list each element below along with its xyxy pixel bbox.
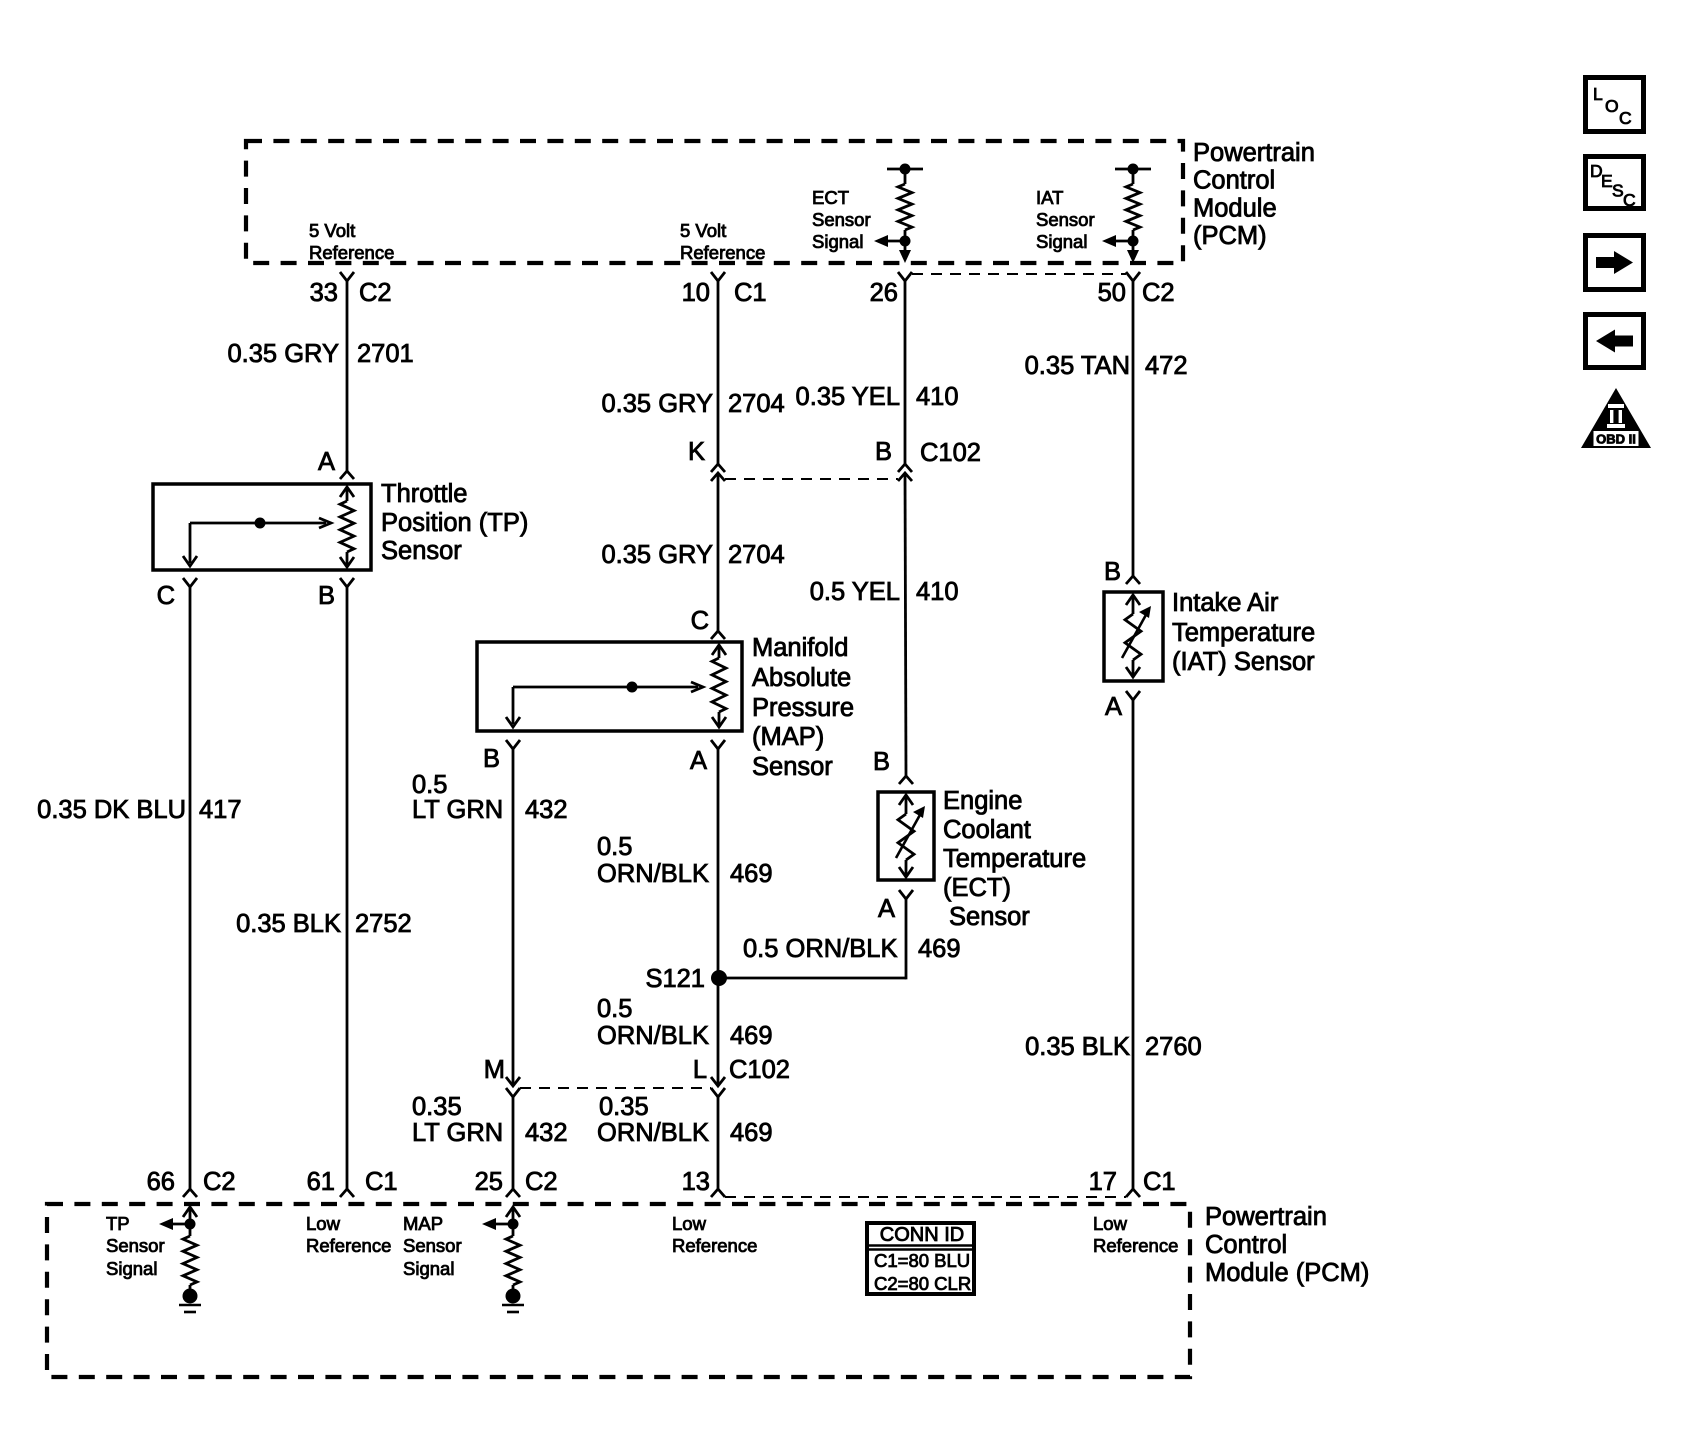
icon: back arrow box bbox=[1586, 315, 1644, 368]
wire: 0.5 ORN/BLK 469 (MAP A to S121 to L C102) bbox=[717, 749, 720, 1085]
svg-text:Sensor: Sensor bbox=[381, 537, 462, 565]
svg-text:Signal: Signal bbox=[1036, 231, 1087, 252]
svg-text:B: B bbox=[483, 745, 500, 773]
wire: 0.5 YEL 410 (B to ECT B) bbox=[905, 473, 906, 776]
svg-text:Sensor: Sensor bbox=[1036, 209, 1095, 230]
wire: 0.35 TAN 472 (pin 50 to IAT B) bbox=[1132, 281, 1135, 576]
svg-text:Pressure: Pressure bbox=[752, 694, 854, 722]
svg-text:410: 410 bbox=[916, 578, 959, 606]
label: Intake Air Temperature (IAT) Sensor bbox=[1172, 589, 1315, 676]
svg-text:S121: S121 bbox=[645, 965, 705, 993]
svg-text:Sensor: Sensor bbox=[106, 1235, 165, 1256]
dashed connector face line M-L C102 bbox=[520, 1087, 711, 1089]
svg-text:13: 13 bbox=[682, 1168, 710, 1196]
svg-text:C2: C2 bbox=[203, 1168, 236, 1196]
svg-text:66: 66 bbox=[147, 1168, 175, 1196]
svg-text:Signal: Signal bbox=[812, 231, 863, 252]
resistor: ECT pull-up inside PCM bbox=[887, 164, 923, 253]
svg-text:S: S bbox=[1612, 181, 1624, 201]
connector pin 17 C1 bbox=[1089, 1168, 1176, 1197]
connector pin 50 C2 bbox=[1098, 272, 1175, 307]
label: 0.5 ORN/BLK 469 upper bbox=[597, 833, 773, 888]
svg-text:C: C bbox=[691, 607, 709, 635]
svg-text:ECT: ECT bbox=[812, 187, 849, 208]
svg-text:C: C bbox=[157, 582, 175, 610]
label: 5 Volt Reference (pin 10) bbox=[680, 220, 765, 263]
wire: 0.35 LT GRN 432 (M to pin 25) bbox=[512, 1097, 515, 1189]
wire: 0.35 BLK 2752 (TP B to pin 61) bbox=[346, 587, 349, 1189]
svg-text:Temperature: Temperature bbox=[943, 845, 1086, 873]
svg-text:0.35 BLK: 0.35 BLK bbox=[236, 910, 341, 938]
svg-text:C1=80 BLU: C1=80 BLU bbox=[874, 1250, 970, 1271]
potentiometer inside TP sensor bbox=[340, 487, 354, 567]
MAP pin A bbox=[690, 740, 725, 775]
svg-text:(ECT): (ECT) bbox=[943, 874, 1011, 902]
wire: 0.5 LT GRN 432 (MAP B to M C102) bbox=[512, 749, 515, 1085]
icon: OBD II triangle bbox=[1581, 388, 1651, 448]
svg-text:Sensor: Sensor bbox=[403, 1235, 462, 1256]
PCM top module box (dashed) bbox=[246, 141, 1183, 263]
CONN ID table bbox=[866, 1223, 975, 1294]
ground: MAP signal pull-down bbox=[502, 1289, 524, 1313]
svg-text:Reference: Reference bbox=[680, 242, 765, 263]
svg-text:L: L bbox=[693, 1056, 707, 1084]
svg-text:A: A bbox=[1105, 693, 1122, 721]
svg-text:C102: C102 bbox=[920, 439, 981, 467]
label: Low Reference (pin 13) bbox=[672, 1213, 757, 1256]
dashed connector face line pins 26-50 bbox=[912, 273, 1126, 275]
TP sensor box bbox=[153, 484, 371, 570]
svg-text:0.35: 0.35 bbox=[412, 1093, 462, 1121]
svg-text:0.35: 0.35 bbox=[599, 1093, 649, 1121]
connector pin 33 C2 bbox=[310, 272, 392, 307]
ECT pin B bbox=[873, 748, 913, 784]
label: Powertrain Control Module (PCM) bottom right bbox=[1205, 1203, 1369, 1287]
svg-text:IAT: IAT bbox=[1036, 187, 1063, 208]
thermistor inside ECT sensor bbox=[896, 795, 925, 877]
svg-text:E: E bbox=[1601, 171, 1613, 191]
svg-text:K: K bbox=[688, 438, 705, 466]
wire: 0.35 YEL 410 (pin 26 to B C102) bbox=[904, 281, 907, 464]
svg-text:Module (PCM): Module (PCM) bbox=[1205, 1259, 1369, 1287]
svg-text:B: B bbox=[875, 438, 892, 466]
label: 0.35 BLK 2752 bbox=[236, 910, 412, 938]
MAP pin B bbox=[483, 740, 520, 773]
label: 0.35 GRY 2701 bbox=[227, 340, 413, 368]
svg-text:B: B bbox=[1104, 558, 1121, 586]
connector pin 25 C2 bbox=[475, 1168, 558, 1197]
ECT sensor box bbox=[878, 792, 934, 880]
label: 0.5 YEL 410 bbox=[810, 578, 959, 606]
svg-text:Position (TP): Position (TP) bbox=[381, 509, 528, 537]
svg-text:A: A bbox=[690, 747, 707, 775]
potentiometer inside MAP sensor bbox=[712, 645, 726, 727]
svg-text:Low: Low bbox=[306, 1213, 341, 1234]
label: 0.35 TAN 472 bbox=[1025, 352, 1188, 380]
svg-text:Absolute: Absolute bbox=[752, 664, 851, 692]
connector pin 26 bbox=[870, 272, 912, 307]
resistor: IAT pull-up inside PCM bbox=[1115, 164, 1151, 253]
svg-text:50: 50 bbox=[1098, 279, 1126, 307]
svg-text:2704: 2704 bbox=[728, 541, 785, 569]
IAT pin A bbox=[1105, 691, 1140, 721]
junction + ECT sensor signal arrow (left) bbox=[874, 235, 911, 247]
TP pin B bbox=[318, 578, 354, 610]
TP wiper arrow bbox=[183, 518, 331, 567]
label: 0.35 GRY 2704 lower bbox=[601, 541, 784, 569]
label: 0.35 YEL 410 bbox=[796, 383, 959, 411]
svg-text:Coolant: Coolant bbox=[943, 816, 1031, 844]
label: TP Sensor Signal bbox=[106, 1213, 165, 1279]
svg-text:469: 469 bbox=[730, 860, 773, 888]
TP pin C bbox=[157, 578, 197, 610]
svg-text:10: 10 bbox=[682, 279, 710, 307]
wire: 0.35 GRY 2701 (pin 33 to TP A) bbox=[346, 281, 349, 471]
svg-text:0.35 DK BLU: 0.35 DK BLU bbox=[37, 796, 186, 824]
label: IAT Sensor Signal bbox=[1036, 187, 1095, 252]
thermistor inside IAT sensor bbox=[1122, 595, 1151, 677]
svg-text:C2: C2 bbox=[1142, 279, 1175, 307]
connector pin 10 C1 bbox=[682, 272, 767, 307]
label: MAP Sensor Signal bbox=[403, 1213, 462, 1279]
svg-text:410: 410 bbox=[916, 383, 959, 411]
svg-text:469: 469 bbox=[730, 1022, 773, 1050]
svg-text:Sensor: Sensor bbox=[812, 209, 871, 230]
wire: S121 to ECT A (horizontal) bbox=[719, 977, 906, 980]
TP pin A bbox=[318, 448, 354, 479]
junction + IAT sensor signal arrow (left) bbox=[1102, 235, 1139, 247]
svg-text:O: O bbox=[1605, 96, 1619, 116]
label: 0.35 BLK 2760 bbox=[1025, 1033, 1202, 1061]
svg-text:5 Volt: 5 Volt bbox=[309, 220, 355, 241]
svg-text:17: 17 bbox=[1089, 1168, 1117, 1196]
svg-text:Sensor: Sensor bbox=[752, 753, 833, 781]
IAT sensor box bbox=[1104, 592, 1163, 681]
svg-text:C1: C1 bbox=[365, 1168, 398, 1196]
svg-text:ORN/BLK: ORN/BLK bbox=[597, 1119, 709, 1147]
in-line connector K C102 bbox=[688, 438, 725, 481]
in-line connector L C102 bbox=[693, 1056, 790, 1097]
label: 0.5 ORN/BLK 469 lower bbox=[597, 995, 773, 1050]
svg-text:432: 432 bbox=[525, 796, 568, 824]
dashed connector face line pins 13-17 bbox=[725, 1196, 1126, 1198]
svg-text:Temperature: Temperature bbox=[1172, 619, 1315, 647]
svg-text:M: M bbox=[484, 1056, 505, 1084]
label: 0.5 ORN/BLK 469 (S121 branch) bbox=[743, 935, 961, 963]
svg-text:25: 25 bbox=[475, 1168, 503, 1196]
svg-text:0.5: 0.5 bbox=[597, 833, 632, 861]
svg-text:B: B bbox=[318, 582, 335, 610]
icon: DESC box bbox=[1586, 157, 1644, 211]
svg-text:Signal: Signal bbox=[106, 1258, 157, 1279]
label: Low Reference (pin 61) bbox=[306, 1213, 391, 1256]
svg-text:0.5: 0.5 bbox=[597, 995, 632, 1023]
svg-text:Reference: Reference bbox=[306, 1235, 391, 1256]
svg-text:2701: 2701 bbox=[357, 340, 414, 368]
connector pin 66 C2 bbox=[147, 1168, 236, 1197]
label: Powertrain Control Module (PCM) top right bbox=[1193, 139, 1315, 250]
label: 0.5 LT GRN 432 bbox=[412, 771, 568, 824]
TP sensor signal input circuit (pin 66) bbox=[159, 1207, 197, 1289]
icon: forward arrow box bbox=[1586, 236, 1644, 290]
svg-text:ORN/BLK: ORN/BLK bbox=[597, 1022, 709, 1050]
svg-text:L: L bbox=[1593, 84, 1603, 104]
splice S121 bbox=[645, 965, 727, 993]
svg-text:0.35 GRY: 0.35 GRY bbox=[601, 390, 713, 418]
ground: TP signal pull-down bbox=[179, 1289, 201, 1313]
svg-text:0.35 BLK: 0.35 BLK bbox=[1025, 1033, 1130, 1061]
svg-text:Engine: Engine bbox=[943, 787, 1022, 815]
MAP wiper arrow bbox=[506, 682, 703, 728]
svg-text:0.35 GRY: 0.35 GRY bbox=[601, 541, 713, 569]
connector pin 13 bbox=[682, 1168, 725, 1197]
label: ECT Sensor Signal bbox=[812, 187, 871, 252]
MAP sensor box bbox=[477, 642, 742, 731]
svg-text:C1: C1 bbox=[734, 279, 767, 307]
svg-text:Powertrain: Powertrain bbox=[1193, 139, 1315, 167]
svg-text:ORN/BLK: ORN/BLK bbox=[597, 860, 709, 888]
svg-text:Powertrain: Powertrain bbox=[1205, 1203, 1327, 1231]
svg-text:MAP: MAP bbox=[403, 1213, 443, 1234]
svg-text:Control: Control bbox=[1205, 1231, 1287, 1259]
svg-text:Reference: Reference bbox=[1093, 1235, 1178, 1256]
svg-text:C: C bbox=[1623, 190, 1636, 210]
icon: LOC box bbox=[1586, 78, 1644, 132]
label: 0.35 GRY 2704 upper bbox=[601, 390, 784, 418]
svg-text:0.35 YEL: 0.35 YEL bbox=[796, 383, 900, 411]
svg-text:C: C bbox=[1619, 108, 1632, 128]
wire: 0.35 GRY 2704 (pin 10 to K C102) bbox=[717, 281, 720, 464]
svg-text:469: 469 bbox=[730, 1119, 773, 1147]
svg-text:2752: 2752 bbox=[355, 910, 412, 938]
svg-text:0.35 TAN: 0.35 TAN bbox=[1025, 352, 1130, 380]
arrow down to pin 50 bbox=[1127, 250, 1139, 263]
svg-text:Intake Air: Intake Air bbox=[1172, 589, 1279, 617]
svg-text:0.35 GRY: 0.35 GRY bbox=[227, 340, 339, 368]
svg-text:432: 432 bbox=[525, 1119, 568, 1147]
svg-text:417: 417 bbox=[199, 796, 242, 824]
svg-text:472: 472 bbox=[1145, 352, 1188, 380]
svg-text:0.5 YEL: 0.5 YEL bbox=[810, 578, 900, 606]
svg-text:Module: Module bbox=[1193, 194, 1277, 222]
svg-text:2760: 2760 bbox=[1145, 1033, 1202, 1061]
svg-text:Reference: Reference bbox=[309, 242, 394, 263]
svg-text:LT GRN: LT GRN bbox=[412, 1119, 503, 1147]
label: 0.35 ORN/BLK 469 bbox=[597, 1093, 773, 1147]
svg-text:Control: Control bbox=[1193, 167, 1275, 195]
label: 0.35 LT GRN 432 bbox=[412, 1093, 568, 1147]
svg-text:C2: C2 bbox=[359, 279, 392, 307]
svg-text:OBD II: OBD II bbox=[1596, 432, 1636, 447]
svg-text:C2=80 CLR: C2=80 CLR bbox=[874, 1273, 971, 1294]
connector pin 61 C1 bbox=[307, 1168, 398, 1197]
label: 0.35 DK BLU 417 bbox=[37, 796, 241, 824]
svg-text:5 Volt: 5 Volt bbox=[680, 220, 726, 241]
in-line connector M C102 bbox=[484, 1056, 520, 1097]
svg-text:A: A bbox=[318, 448, 335, 476]
svg-text:61: 61 bbox=[307, 1168, 335, 1196]
svg-text:C2: C2 bbox=[525, 1168, 558, 1196]
svg-text:TP: TP bbox=[106, 1213, 130, 1234]
wire: 0.35 ORN/BLK 469 (L to pin 13) bbox=[717, 1097, 720, 1189]
ECT pin A bbox=[878, 890, 913, 923]
svg-text:(MAP): (MAP) bbox=[752, 723, 824, 751]
svg-text:26: 26 bbox=[870, 279, 898, 307]
svg-text:2704: 2704 bbox=[728, 390, 785, 418]
svg-text:(IAT) Sensor: (IAT) Sensor bbox=[1172, 648, 1315, 676]
svg-text:33: 33 bbox=[310, 279, 338, 307]
wire: 0.35 GRY 2704 (K to MAP C) bbox=[717, 473, 720, 631]
svg-text:Manifold: Manifold bbox=[752, 634, 848, 662]
PCM bottom module box (dashed) bbox=[47, 1204, 1190, 1377]
wire: ECT A down to S121 branch bbox=[905, 899, 908, 979]
label: 5 Volt Reference (pin 33) bbox=[309, 220, 394, 263]
dashed connector face line K-B C102 bbox=[725, 478, 898, 480]
svg-text:C102: C102 bbox=[729, 1056, 790, 1084]
svg-text:Signal: Signal bbox=[403, 1258, 454, 1279]
svg-text:Throttle: Throttle bbox=[381, 480, 467, 508]
arrow down to pin 26 bbox=[899, 250, 911, 263]
svg-text:(PCM): (PCM) bbox=[1193, 222, 1267, 250]
svg-text:LT GRN: LT GRN bbox=[412, 796, 503, 824]
IAT pin B bbox=[1104, 558, 1140, 586]
label: Low Reference (pin 17) bbox=[1093, 1213, 1178, 1256]
svg-text:Sensor: Sensor bbox=[949, 903, 1030, 931]
svg-text:CONN ID: CONN ID bbox=[880, 1224, 964, 1246]
svg-text:0.5: 0.5 bbox=[412, 771, 447, 799]
MAP sensor signal input circuit (pin 25) bbox=[482, 1207, 520, 1289]
svg-text:Low: Low bbox=[672, 1213, 707, 1234]
wire: 0.35 BLK 2760 (IAT A to pin 17) bbox=[1132, 700, 1135, 1189]
label: Engine Coolant Temperature (ECT) Sensor bbox=[943, 787, 1086, 931]
svg-text:C1: C1 bbox=[1143, 1168, 1176, 1196]
label: Throttle Position (TP) Sensor bbox=[381, 480, 528, 565]
svg-text:Reference: Reference bbox=[672, 1235, 757, 1256]
wire: 0.35 DK BLU 417 (TP C to pin 66) bbox=[189, 587, 192, 1189]
svg-text:B: B bbox=[873, 748, 890, 776]
in-line connector B C102 bbox=[875, 438, 981, 481]
MAP pin C bbox=[691, 607, 725, 639]
svg-text:Low: Low bbox=[1093, 1213, 1128, 1234]
svg-text:469: 469 bbox=[918, 935, 961, 963]
label: Manifold Absolute Pressure (MAP) Sensor bbox=[752, 634, 854, 781]
svg-text:A: A bbox=[878, 895, 895, 923]
svg-text:0.5 ORN/BLK: 0.5 ORN/BLK bbox=[743, 935, 897, 963]
